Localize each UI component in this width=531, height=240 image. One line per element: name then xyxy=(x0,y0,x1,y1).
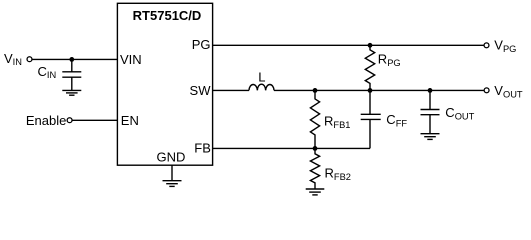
label RPG value xyxy=(378,52,401,68)
svg-text:VIN: VIN xyxy=(120,52,142,67)
svg-text:CFF: CFF xyxy=(386,112,407,128)
pin FB label xyxy=(194,141,211,156)
pin PG label xyxy=(192,37,211,52)
svg-text:RFB2: RFB2 xyxy=(325,166,351,183)
resistor RFB1 xyxy=(310,90,319,148)
node VOUT output terminal xyxy=(484,88,489,93)
capacitor CFF xyxy=(361,90,381,148)
svg-text:PG: PG xyxy=(192,37,211,52)
wire PG net xyxy=(213,44,484,46)
label RT5751C/D part number xyxy=(133,8,202,23)
svg-text:CIN: CIN xyxy=(38,64,57,80)
label VOUT net xyxy=(494,83,523,99)
wire SW to inductor xyxy=(213,89,249,91)
node VOUT / COUT top junction xyxy=(428,88,433,93)
svg-text:COUT: COUT xyxy=(445,105,474,121)
label Enable net xyxy=(26,113,66,128)
pin SW label xyxy=(190,83,212,98)
node VPG output terminal xyxy=(484,43,489,48)
node VIN junction xyxy=(69,57,74,62)
label VIN net xyxy=(4,51,22,67)
svg-text:SW: SW xyxy=(190,83,212,98)
pin GND label xyxy=(157,149,186,164)
label L value xyxy=(258,69,265,84)
resistor RPG xyxy=(365,45,374,90)
ground for GND pin xyxy=(163,181,182,187)
svg-text:VIN: VIN xyxy=(4,51,22,67)
svg-text:RT5751C/D: RT5751C/D xyxy=(133,8,202,23)
node VIN input terminal xyxy=(27,57,32,62)
wire GND pin to ground xyxy=(171,165,173,181)
node FB / RFB junction xyxy=(313,146,318,151)
svg-text:GND: GND xyxy=(157,149,186,164)
svg-text:EN: EN xyxy=(121,113,139,128)
wire EN input xyxy=(72,119,117,121)
node PG / RPG top junction xyxy=(368,43,373,48)
node VOUT / RFB1 top junction xyxy=(313,88,318,93)
capacitor COUT xyxy=(421,90,440,133)
capacitor CIN xyxy=(62,59,81,90)
label CFF value xyxy=(386,112,407,128)
ground for RFB2 xyxy=(306,189,325,195)
svg-text:L: L xyxy=(258,69,265,84)
label RFB2 value xyxy=(325,166,351,183)
wire VIN input xyxy=(32,58,117,60)
label CIN value xyxy=(38,64,57,80)
label VPG net xyxy=(494,38,516,54)
svg-text:RFB1: RFB1 xyxy=(324,114,350,131)
pin EN label xyxy=(121,113,139,128)
label RFB1 value xyxy=(324,114,350,131)
resistor RFB2 xyxy=(310,148,319,189)
node VOUT / RPG bottom and CFF top junction xyxy=(368,88,373,93)
ground for COUT xyxy=(421,134,440,140)
svg-text:VPG: VPG xyxy=(494,38,516,54)
inductor L xyxy=(249,84,274,90)
wire FB net xyxy=(213,147,370,149)
svg-text:VOUT: VOUT xyxy=(494,83,523,99)
pin VIN label xyxy=(120,52,142,67)
svg-text:RPG: RPG xyxy=(378,52,401,68)
label COUT value xyxy=(445,105,474,121)
svg-text:FB: FB xyxy=(194,141,211,156)
ground for CIN xyxy=(62,90,81,95)
node Enable input terminal xyxy=(67,118,72,123)
op-amp U1 RT5751C/D IC body xyxy=(117,3,212,165)
wire VOUT net xyxy=(274,89,484,91)
svg-text:Enable: Enable xyxy=(26,113,66,128)
